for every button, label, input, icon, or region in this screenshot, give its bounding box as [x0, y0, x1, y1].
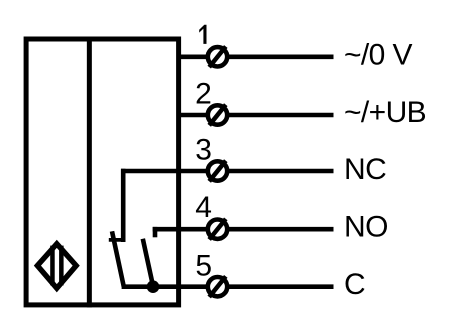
wire terminal 4 to label: [226, 227, 334, 232]
wire terminal 2 to label: [226, 113, 334, 118]
wire terminal 3 to label: [226, 169, 334, 174]
sensor symbol left bar: [50, 246, 55, 286]
wire terminal 2: [179, 113, 209, 118]
terminal 1 screw: [208, 47, 227, 68]
svg-text:NO: NO: [344, 211, 388, 244]
svg-text:~/0 V: ~/0 V: [344, 38, 412, 71]
NO moving contact lever: [143, 239, 153, 287]
svg-text:~/+UB: ~/+UB: [344, 96, 426, 129]
wire terminal 5 to label: [226, 284, 334, 289]
wire terminal 1 to label: [226, 54, 334, 59]
wire terminal 3 (NC): [121, 169, 209, 174]
terminal 4 screw: [208, 219, 227, 240]
svg-text:4: 4: [195, 191, 212, 224]
NO fixed contact stub: [153, 227, 158, 237]
svg-text:C: C: [344, 268, 365, 301]
terminal 3 screw: [208, 161, 227, 182]
svg-text:5: 5: [195, 250, 212, 283]
NC fixed contact drop wire: [121, 169, 126, 242]
sensor body outline: [26, 39, 179, 305]
sensor body divider: [87, 37, 92, 308]
proximity sensor symbol (diamond): [37, 244, 76, 288]
svg-text:2: 2: [195, 78, 212, 111]
NC contact seat bar: [109, 238, 126, 242]
svg-text:NC: NC: [344, 153, 386, 186]
junction node on C wire: [147, 280, 160, 293]
wire terminal 4 (NO): [153, 227, 209, 232]
NC moving contact lever: [112, 231, 124, 286]
pin number 1: [199, 25, 206, 44]
wire terminal 5 (C): [122, 284, 209, 289]
wire terminal 1: [179, 54, 209, 59]
terminal 2 screw: [208, 105, 227, 126]
svg-text:3: 3: [195, 133, 212, 166]
terminal 5 screw: [208, 276, 227, 297]
sensor symbol right bar: [59, 246, 64, 286]
